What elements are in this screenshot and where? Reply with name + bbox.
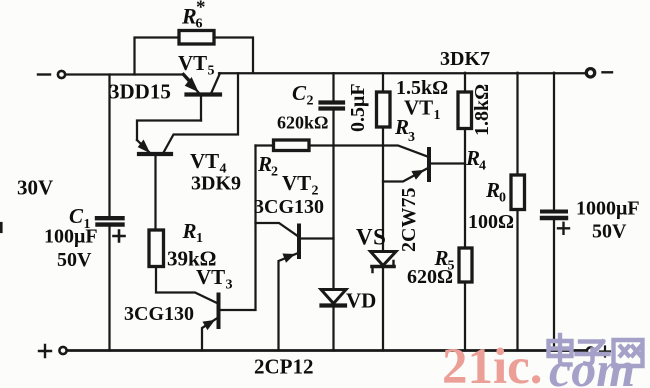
svg-text:2: 2 [307,94,314,109]
svg-text:VT: VT [282,171,311,195]
polarity plus bottom-right [600,347,610,357]
svg-text:4: 4 [479,159,486,174]
svg-text:VS: VS [356,225,386,250]
svg-text:R: R [181,4,197,29]
svg-text:3DK9: 3DK9 [191,173,241,195]
transistor VT2 emitter arrow [283,254,294,262]
transistor VT5 collector wire [212,73,221,92]
svg-text:100μF: 100μF [44,226,98,248]
wire R3 top lead [382,73,384,92]
svg-text:3DD15: 3DD15 [109,80,171,104]
svg-text:620kΩ: 620kΩ [277,113,328,133]
wire VT2 base lead [256,223,298,236]
svg-text:3CG130: 3CG130 [254,196,324,218]
svg-text:5: 5 [208,64,215,79]
svg-text:VT: VT [196,265,225,289]
resistor R6 [179,31,214,45]
transistor VT2 collector wire [301,237,334,239]
svg-text:3DK7: 3DK7 [440,48,490,70]
svg-text:0.5μF: 0.5μF [347,83,369,132]
transistor VT1 emitter arrow [412,171,423,179]
transistor VT5 base lead down [200,97,202,121]
resistor R4 [458,92,472,129]
wire VS to bottom rail [382,268,384,351]
wire VD to bottom rail [332,308,334,351]
svg-text:VT: VT [190,149,219,173]
svg-text:R: R [257,152,272,176]
capacitor C2 [321,100,344,104]
input terminal bottom (+) [59,347,66,354]
svg-text:C: C [69,204,84,228]
transistor VT4 collector wire [164,73,239,152]
wire C1 branch lower [108,227,110,351]
C3 plus sign [558,223,569,234]
svg-text:C: C [292,81,307,105]
svg-text:3CG130: 3CG130 [124,303,194,325]
svg-text:620Ω: 620Ω [407,266,453,288]
wire R2 left lead [256,144,274,146]
svg-text:1.8kΩ: 1.8kΩ [471,84,493,136]
wire C3 top lead [553,73,555,210]
svg-text:21ic.: 21ic. [442,339,543,388]
wire R6 left lead [135,38,180,75]
svg-text:R: R [182,219,197,243]
zener VS [371,252,397,266]
wire C1 branch upper [108,75,110,217]
svg-text:100Ω: 100Ω [468,211,514,233]
resistor R1 [149,230,164,267]
wire C2 bottom to VD [332,111,334,289]
svg-text:VT: VT [178,51,207,75]
transistor VT4 base lead down [154,156,156,230]
resistor R5 [459,248,472,282]
wire C2 top lead [332,73,334,100]
output terminal top (-) [586,69,594,77]
transistor VT5 base bar [187,92,221,96]
polarity minus top-right [603,71,613,73]
svg-text:*: * [196,0,206,18]
svg-text:1000μF: 1000μF [576,198,640,220]
transistor VT4 emitter arrow [137,140,150,153]
resistor R0 [511,175,525,210]
svg-text:R: R [485,178,500,202]
wire R4 bottom to R5 [464,129,466,249]
C1 plus sign [114,231,125,242]
svg-text:6: 6 [196,17,203,32]
watermark 21ic.com [442,339,635,388]
char dian [549,335,572,365]
svg-text:1: 1 [434,108,441,123]
svg-text:R: R [465,146,480,170]
svg-text:30V: 30V [17,176,53,200]
transistor VT1 emitter wire [383,169,427,182]
resistor R2 [274,140,310,151]
svg-text:2: 2 [271,165,278,180]
output terminal bottom (+) [587,347,594,354]
wire R6 right lead [214,38,253,73]
svg-text:2CP12: 2CP12 [254,355,314,379]
svg-text:VD: VD [346,289,376,313]
transistor VT4 base bar [139,152,171,156]
svg-text:3: 3 [226,278,233,293]
wire R2 right to VT1 collector [309,146,428,157]
char zi [577,342,609,365]
transistor VT3 base bar [217,295,221,328]
transistor VT2 emitter wire [279,254,298,351]
wire top rail right segment [219,72,586,74]
polarity plus bottom-left [39,345,51,357]
transistor VT3 collector wire [221,146,256,311]
wire top rail left segment [67,73,184,75]
capacitor C3 1000uF [542,210,566,214]
svg-text:1: 1 [196,231,203,246]
wire C3 bottom lead [553,220,555,351]
wire R0 bottom lead [516,210,518,351]
input terminal top (-) [58,71,65,78]
wire R0 top lead [516,73,518,175]
polarity minus top-left [38,73,50,75]
transistor VT1 base bar [427,149,431,180]
wire R1 bottom to VT3 base [156,267,217,304]
transistor VT1 base lead right [431,162,465,164]
svg-text:0: 0 [499,191,506,206]
watermark Chinese characters dian-zi-wang [549,335,643,366]
svg-text:3: 3 [408,130,415,145]
wire bottom rail [68,349,587,352]
transistor VT5 emitter arrow [186,78,198,91]
char wang [614,340,643,366]
wire VT5 base to VT4 emitter [137,121,201,141]
svg-text:2CW75: 2CW75 [398,188,420,252]
svg-text:50V: 50V [592,221,627,243]
wire R5 bottom lead [464,282,466,351]
svg-text:50V: 50V [57,249,92,271]
resistor R3 [377,92,391,127]
scan artifact left edge [0,224,3,232]
diode VD [321,290,346,304]
transistor VT2 base bar [297,226,301,258]
transistor VT5 emitter wire [183,75,199,93]
wire R4 top lead [464,73,466,92]
capacitor C1 [97,216,123,220]
svg-text:R: R [394,115,409,139]
wire R3 bottom to VS [382,127,384,251]
transistor VT3 emitter arrow [203,321,214,330]
transistor VT3 emitter wire [202,319,217,351]
